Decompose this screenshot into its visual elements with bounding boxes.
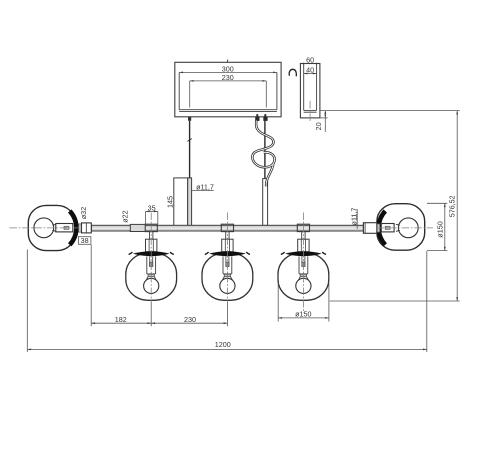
pendant 3 lamp holder bbox=[302, 256, 305, 266]
svg-text:40: 40 bbox=[306, 66, 314, 75]
pendant 3 dome cap bbox=[285, 251, 322, 256]
svg-text:1200: 1200 bbox=[215, 340, 231, 349]
side view centerline bbox=[309, 101, 311, 122]
svg-text:ø32: ø32 bbox=[79, 207, 88, 219]
pendant 1 hub bbox=[145, 224, 157, 231]
dimension 1200 bbox=[27, 250, 427, 353]
pendant 1 bulb bbox=[144, 274, 159, 293]
cable gland left bbox=[255, 114, 259, 121]
svg-text:576,52: 576,52 bbox=[448, 195, 457, 217]
bar bbox=[91, 225, 363, 231]
right globe bbox=[377, 204, 425, 251]
svg-text:ø150: ø150 bbox=[295, 309, 311, 318]
pendant 1 globe bbox=[126, 253, 177, 300]
dimension 576,52 bbox=[321, 111, 460, 301]
pendant 3 hub bbox=[297, 224, 309, 231]
svg-text:ø11,7: ø11,7 bbox=[196, 182, 214, 191]
pendant 2 globe bbox=[202, 253, 253, 300]
cable tube bbox=[263, 179, 268, 226]
rod connector at canopy bbox=[188, 117, 191, 121]
canopy front view body bbox=[175, 62, 281, 117]
pendant 2 lamp holder bbox=[226, 256, 229, 266]
left centerline bbox=[10, 227, 82, 229]
right globe neck ring bbox=[379, 211, 386, 245]
canopy side view body bbox=[300, 64, 320, 118]
svg-text:38: 38 bbox=[81, 236, 89, 245]
pendant 2 socket shroud bbox=[223, 256, 232, 274]
coiled cord bbox=[252, 121, 274, 187]
right globe socket collar bbox=[377, 224, 380, 232]
right end cap bbox=[363, 223, 376, 234]
dimension 230 (pendant spacing) bbox=[151, 301, 227, 326]
rod sheath tube bbox=[188, 178, 192, 226]
pendant 3 stem bbox=[302, 232, 305, 239]
dimension 60 bbox=[300, 55, 320, 64]
dimension 35 bbox=[146, 203, 158, 224]
left bulb bbox=[34, 218, 73, 238]
pendant 2 stem bbox=[226, 232, 229, 239]
support cable bbox=[264, 120, 266, 179]
svg-text:145: 145 bbox=[165, 196, 174, 208]
pendant 1 centerline bbox=[150, 213, 152, 301]
pendant 2 centerline bbox=[226, 213, 228, 301]
ceiling hook bbox=[289, 69, 296, 76]
pendant 3 centerline bbox=[302, 213, 304, 314]
pendant 1 socket shroud bbox=[147, 256, 156, 274]
left end cap bbox=[82, 223, 92, 233]
svg-text:35: 35 bbox=[148, 203, 156, 212]
dimension diameter 150 (pendant globe) bbox=[278, 283, 329, 322]
dimension 20 bbox=[314, 111, 327, 132]
cable gland right bbox=[263, 114, 267, 121]
dimension 40 bbox=[304, 66, 317, 75]
svg-text:230: 230 bbox=[184, 315, 196, 324]
svg-text:182: 182 bbox=[115, 315, 127, 324]
suspension rod bbox=[189, 121, 191, 178]
svg-text:ø11,7: ø11,7 bbox=[350, 208, 359, 226]
rod holder plate bbox=[174, 178, 188, 226]
pendant 1 stem bbox=[150, 232, 153, 239]
svg-text:230: 230 bbox=[222, 73, 234, 82]
pendant 1 socket cup bbox=[146, 239, 157, 252]
pendant 3 socket shroud bbox=[299, 256, 308, 274]
svg-text:20: 20 bbox=[314, 122, 323, 130]
canopy top center mark bbox=[227, 60, 229, 63]
pendant 2 socket cup bbox=[222, 239, 233, 252]
dimension 300 bbox=[179, 64, 277, 73]
label diameter 11,7 (rod) bbox=[192, 182, 214, 191]
pendant 1 dome cap bbox=[133, 251, 170, 256]
dimension 230 (canopy) bbox=[190, 73, 267, 108]
left globe neck ring bbox=[70, 211, 77, 245]
label 38 bbox=[78, 236, 91, 245]
left globe bbox=[28, 205, 75, 250]
pendant 1 lamp holder bbox=[150, 256, 153, 266]
right centerline bbox=[377, 227, 433, 229]
svg-text:ø150: ø150 bbox=[435, 221, 444, 237]
pendant 2 hub bbox=[221, 224, 233, 231]
label diameter 11,7 (bar end) bbox=[350, 208, 359, 229]
svg-text:60: 60 bbox=[306, 55, 314, 64]
pendant 3 socket cup bbox=[298, 239, 309, 252]
left globe socket collar bbox=[79, 224, 82, 232]
pendant 3 bulb bbox=[296, 274, 311, 293]
dimension 182 bbox=[91, 245, 151, 326]
pendant 2 bulb bbox=[220, 274, 235, 293]
rod break mark bbox=[187, 139, 191, 142]
right bulb bbox=[381, 218, 418, 238]
diameter 22 sleeve bbox=[130, 224, 145, 231]
svg-text:ø22: ø22 bbox=[121, 210, 130, 222]
pendant 2 dome cap bbox=[209, 251, 246, 256]
pendant 3 globe bbox=[278, 253, 329, 300]
dimension diameter 150 (right globe) bbox=[427, 203, 447, 250]
